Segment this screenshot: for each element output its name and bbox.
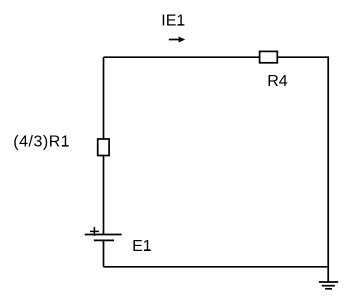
serif foot of digit 1 in E1 bbox=[144, 249, 150, 251]
resistor (4/3)R1 (box on left wire) bbox=[98, 139, 109, 156]
wire top (battery positive node through R1 up and across to R4) bbox=[104, 56, 329, 58]
wire left side (top node down through R1 to battery) bbox=[103, 57, 105, 234]
serif foot of digit 1 in (4/3)R1 bbox=[62, 145, 68, 147]
battery E1 negative (short) plate bbox=[94, 239, 114, 241]
serif foot of digit 1 in IE1 bbox=[178, 24, 184, 26]
wire right side (R4 down to ground node) bbox=[327, 56, 329, 282]
svg-text:R4: R4 bbox=[267, 73, 288, 90]
battery E1 positive (long) plate bbox=[85, 234, 122, 236]
wire bottom rail (battery to ground corner) bbox=[104, 266, 329, 268]
svg-text:E1: E1 bbox=[132, 238, 152, 255]
ground symbol bbox=[319, 282, 338, 289]
battery polarity plus sign bbox=[90, 227, 99, 236]
svg-text:IE1: IE1 bbox=[161, 13, 185, 30]
svg-text:(4/3)R1: (4/3)R1 bbox=[13, 134, 70, 151]
current IE1 direction arrow bbox=[169, 37, 185, 43]
wire battery negative to bottom rail bbox=[103, 240, 105, 266]
resistor R4 (box on top wire) bbox=[260, 51, 278, 62]
